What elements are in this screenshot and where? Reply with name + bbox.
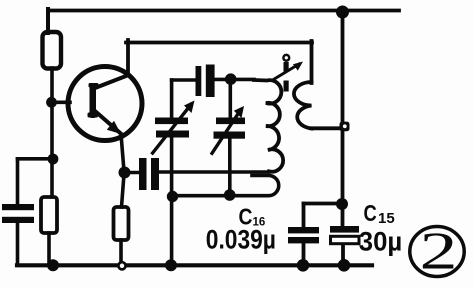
svg-text:15: 15 <box>378 210 395 227</box>
svg-text:C: C <box>364 201 377 227</box>
svg-text:0.039µ: 0.039µ <box>206 226 276 255</box>
svg-text:30µ: 30µ <box>359 226 402 256</box>
